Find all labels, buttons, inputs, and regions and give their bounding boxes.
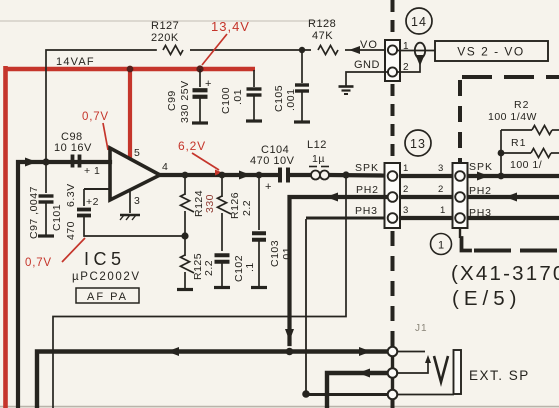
svg-text:R2: R2 [514, 99, 529, 111]
node junction dot R124/R125/C101 [181, 232, 188, 239]
arrow PH2 descending down [285, 329, 294, 341]
wire SPK to right edge [467, 174, 559, 178]
connector P13 right pin1 circle [455, 171, 465, 181]
resistor R128 47K [318, 46, 338, 55]
svg-text:R128: R128 [308, 18, 336, 30]
wire pin2 to cable shield [397, 64, 420, 72]
connector P14 body [385, 40, 400, 81]
svg-text:330 25V: 330 25V [179, 80, 191, 123]
svg-text:2.2: 2.2 [203, 260, 215, 276]
wire J1 pin3 to sleeve [397, 394, 454, 396]
svg-text:AF PA: AF PA [87, 291, 128, 303]
capacitor C100 lead upper [253, 70, 255, 87]
arrow line1 pointing left [167, 347, 179, 356]
node junction dot PH3 joins line3 [302, 390, 310, 398]
capacitor C103 lead lower [258, 240, 260, 286]
board outline dashed right vertical [458, 80, 462, 162]
svg-text:.01: .01 [232, 89, 244, 105]
svg-text:14VAF: 14VAF [56, 56, 95, 68]
node junction dot SPK branch [342, 171, 349, 178]
node junction dot red wire / C99 [196, 65, 203, 72]
inductor L12 1u [311, 171, 329, 176]
wire PH3 return horizontal [306, 217, 385, 220]
board edge solid at J1 [391, 351, 394, 395]
capacitor C101 lead upper [83, 189, 85, 206]
wire R1 R2 branch vertical [500, 130, 502, 175]
board edge dashed line mid [391, 84, 395, 162]
resistor R126 lead upper [221, 175, 223, 197]
svg-text:.1: .1 [244, 262, 256, 272]
svg-text:(X41-3170: (X41-3170 [451, 262, 559, 285]
wire speaker line 3 [306, 393, 388, 396]
svg-text:IC5: IC5 [84, 249, 126, 269]
svg-text:+ 1: + 1 [84, 165, 100, 177]
svg-text:+: + [265, 181, 272, 193]
board outline corner bottom [462, 238, 471, 251]
wire VO pin to shield cable [397, 50, 435, 52]
svg-text:SPK: SPK [355, 162, 379, 174]
capacitor C105 lead lower [301, 91, 303, 121]
board edge dashed below J1 [391, 400, 395, 408]
label circled 14 [406, 8, 432, 34]
svg-text:6.3V: 6.3V [65, 183, 77, 207]
board outline dashed bottom [474, 249, 559, 253]
svg-text:0,7V: 0,7V [25, 257, 52, 269]
wire SPK sense thin route [53, 175, 346, 408]
connector P13 right pin2 circle [455, 192, 465, 202]
resistor R125 lead upper [184, 236, 186, 256]
connector P13 right pin3 circle [455, 213, 465, 223]
svg-text:1: 1 [438, 240, 444, 252]
capacitor C98 10 16V [71, 155, 75, 168]
op-amp pin3 ground wire [129, 189, 131, 213]
scan artifact bottom edge line [0, 406, 559, 408]
arrow switch contact up [425, 355, 431, 363]
svg-text:10 16V: 10 16V [54, 142, 92, 154]
arrow on VO line pointing left [349, 46, 360, 54]
svg-text:220K: 220K [151, 32, 179, 44]
wire 14V red horizontal top [4, 67, 256, 71]
jack sleeve bar [454, 350, 462, 394]
op-amp U IC5 triangle [110, 148, 160, 200]
resistor R124 lead upper [184, 175, 186, 195]
svg-text:14: 14 [411, 15, 427, 29]
resistor R2 100 1/4W [532, 126, 552, 135]
capacitor C97 ,0047 [39, 194, 54, 197]
board outline dashed top right [462, 75, 559, 79]
svg-text:R127: R127 [151, 20, 179, 32]
resistor R1 100 1/4W [531, 149, 551, 158]
svg-text:1: 1 [403, 163, 409, 174]
wire J1 pin1 to switch [397, 351, 425, 353]
svg-text:L12: L12 [307, 139, 327, 151]
connector P14 pin1 circle [388, 45, 397, 54]
arrow input line pointing right [25, 158, 37, 167]
svg-text:GND: GND [354, 59, 380, 71]
wire PH3 between connectors [400, 216, 452, 220]
wire PH2 between connectors [400, 195, 452, 199]
wire GND pin to ground [346, 72, 388, 85]
jack tip contact V [434, 356, 448, 382]
connector J1 pin3 circle [388, 390, 398, 400]
wire J1 pin2 to switch contact [397, 360, 428, 373]
svg-text:.001: .001 [285, 89, 297, 111]
svg-text:330: 330 [204, 194, 216, 213]
svg-text:+: + [205, 78, 212, 90]
callout line 0,7V upper [103, 123, 108, 150]
inductor core dashes [309, 166, 317, 168]
resistor R127 220K [163, 46, 183, 55]
capacitor C105 .001 [295, 83, 309, 86]
capacitor C105 lead upper [301, 50, 303, 83]
connector J1 pin1 circle [388, 347, 398, 357]
ground T-bar C102 [214, 286, 230, 289]
wire 14V red vertical left bus [3, 66, 8, 408]
svg-text:PH3: PH3 [355, 205, 378, 217]
capacitor C100 .01 [247, 87, 262, 90]
svg-text:2: 2 [438, 184, 444, 195]
capacitor C99 330 25V [193, 88, 208, 92]
svg-text:C97 ,0047: C97 ,0047 [28, 186, 40, 239]
svg-text:C99: C99 [166, 90, 178, 111]
connector P13 left pin2 circle [388, 192, 398, 202]
svg-text:C103: C103 [269, 240, 281, 267]
svg-text:VO: VO [360, 39, 378, 51]
wire speaker line 2 [327, 373, 388, 408]
wire input signal line [18, 162, 110, 408]
wire feedback line to VO pin [345, 49, 388, 51]
resistor R125 2.2 [181, 255, 195, 273]
svg-text:R1: R1 [511, 137, 526, 149]
resistor R126 lead mid [221, 213, 223, 251]
connector P13 left pin1 circle [388, 171, 398, 181]
arrow line2 pointing left [358, 369, 370, 378]
capacitor C97 lead lower [45, 202, 47, 235]
capacitor C101 lead lower to node [84, 216, 183, 236]
arrow PH2 right pointing left [505, 193, 517, 202]
ground T-bar C99 [192, 121, 208, 124]
capacitor C103 .01 [252, 231, 266, 235]
svg-text:PH2: PH2 [356, 184, 379, 196]
svg-text:3: 3 [134, 195, 140, 207]
connector P13 right body [453, 163, 468, 228]
svg-text:5: 5 [134, 147, 140, 159]
svg-text:2: 2 [403, 184, 409, 195]
connector stub below P13 right [459, 228, 461, 238]
ground symbol GND [339, 85, 354, 88]
wire PH3 descender [305, 219, 307, 393]
resistor R124 330 [181, 194, 195, 212]
capacitor C99 lead lower [199, 97, 201, 122]
ground T-bar C97 [38, 234, 54, 237]
node junction dot R126 tap [219, 172, 226, 179]
connector J1 pin2 circle [388, 368, 398, 378]
arrow SPK pointing right [477, 172, 489, 181]
wire speaker line 1 [37, 352, 388, 408]
capacitor C104 470 10V [278, 168, 282, 183]
svg-text:3: 3 [438, 163, 444, 174]
board edge dashed line lower [391, 231, 395, 347]
svg-text:13,4V: 13,4V [211, 19, 250, 34]
callout line 13,4V [202, 34, 227, 65]
scan artifact faint top line [0, 20, 332, 22]
svg-text:C100: C100 [220, 87, 232, 114]
label box AF PA [76, 288, 139, 303]
capacitor C103 lead upper [258, 175, 260, 230]
capacitor C101 470 6.3V [77, 208, 91, 212]
connector P14 pin2 circle [388, 67, 397, 76]
svg-text:4: 4 [162, 161, 168, 173]
label circled 1 [431, 234, 452, 255]
ground T-bar C103 [251, 286, 267, 289]
node junction dot C103 tap [256, 172, 263, 179]
wire PH2 return [290, 197, 386, 344]
capacitor C100 lead lower [253, 95, 255, 120]
svg-text:2.2: 2.2 [241, 200, 253, 216]
node junction dot SPK/R1 branch [498, 173, 505, 180]
resistor R126 2.2 [218, 196, 232, 214]
arrow line1 pointing right [359, 347, 371, 356]
node junction dot R124 tap [182, 172, 189, 179]
arrow output line pointing right [239, 171, 251, 180]
ground chassis IC5 pin3 [120, 214, 140, 217]
wire output line [158, 173, 278, 177]
svg-text:(E/5): (E/5) [452, 287, 521, 310]
wire R2 row [501, 129, 532, 131]
node junction dot C105 tap [299, 47, 305, 53]
svg-text:470: 470 [65, 221, 77, 240]
wire R1 row [501, 152, 531, 154]
board edge dashed line upper [391, 0, 395, 40]
capacitor C102 lead lower [221, 262, 223, 286]
svg-text:47K: 47K [312, 30, 333, 42]
wire feedback top line left segment [46, 50, 156, 162]
svg-text:100 1/4W: 100 1/4W [488, 111, 537, 123]
node junction dot red wire / pin5 drop [127, 66, 134, 73]
wire SPK line to connector [329, 173, 385, 178]
label box VS 2 - VO [435, 41, 548, 61]
svg-text:C101: C101 [51, 204, 63, 231]
svg-text:6,2V: 6,2V [178, 139, 206, 153]
wire R2 to edge [552, 129, 559, 131]
svg-text:100 1/: 100 1/ [510, 159, 542, 171]
shielded cable symbol at VO [415, 43, 425, 59]
resistor R124 lead lower [184, 211, 186, 236]
label circled 13 [405, 130, 431, 156]
ground T-bar C100 [246, 119, 262, 122]
wire SPK between connectors [400, 174, 452, 178]
wire PH2 to right edge [467, 195, 559, 199]
svg-text:1µ: 1µ [312, 153, 325, 165]
ground T-bar R125 [177, 288, 193, 291]
svg-text:13: 13 [410, 137, 426, 151]
capacitor C102 .1 [215, 253, 230, 257]
svg-text:470 10V: 470 10V [250, 155, 295, 167]
svg-text:J1: J1 [415, 323, 428, 334]
svg-text:R126: R126 [229, 192, 241, 219]
wire output line after C104 [290, 173, 311, 177]
svg-text:3: 3 [403, 205, 409, 216]
svg-text:1: 1 [440, 205, 446, 216]
svg-text:0,7V: 0,7V [82, 111, 109, 123]
connector P13 left body [385, 163, 401, 228]
callout line 6,2V [192, 153, 219, 170]
svg-text:µPC2002V: µPC2002V [72, 271, 141, 283]
wire feedback line mid segment [190, 49, 311, 51]
resistor R125 lead lower [184, 272, 186, 288]
svg-text:VS 2 - VO: VS 2 - VO [457, 45, 525, 59]
node junction dot R1/R2 [498, 150, 505, 157]
callout line 0,7V lower [62, 238, 85, 262]
connector P13 left pin3 circle [388, 213, 398, 223]
svg-text:C105: C105 [273, 85, 285, 112]
capacitor C99 lead upper [199, 69, 201, 87]
wire red drop to IC5 pin5 [128, 67, 132, 158]
svg-text:SPK: SPK [469, 161, 493, 173]
wire PH3 to right edge [467, 216, 559, 220]
node junction dot input / C97 / feedback [42, 158, 49, 165]
ground T-bar C105 [294, 120, 310, 123]
svg-text:+2: +2 [86, 196, 99, 208]
capacitor C97 lead upper [45, 162, 47, 193]
svg-text:EXT. SP: EXT. SP [469, 368, 530, 383]
op-amp pin2 wire [84, 188, 110, 190]
arrow PH2 pointing left [326, 193, 338, 202]
node junction dot PH2 joins line1 [286, 348, 294, 356]
wire R1 to edge [551, 152, 559, 154]
